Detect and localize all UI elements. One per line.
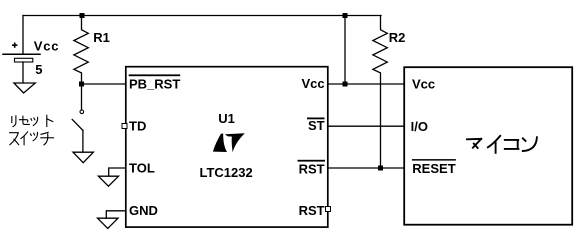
svg-text:ST: ST <box>308 118 325 133</box>
svg-text:Vcc: Vcc <box>412 77 435 92</box>
svg-text:Vcc: Vcc <box>34 39 60 54</box>
svg-text:R2: R2 <box>389 30 406 45</box>
svg-text:TOL: TOL <box>129 161 155 176</box>
svg-text:5: 5 <box>35 62 42 77</box>
svg-text:I/O: I/O <box>411 119 428 134</box>
svg-text:PB_RST: PB_RST <box>129 77 180 92</box>
svg-text:RST: RST <box>299 203 325 218</box>
svg-text:TD: TD <box>129 119 146 134</box>
svg-text:RESET: RESET <box>412 161 455 176</box>
svg-text:RST: RST <box>299 161 325 176</box>
svg-text:LTC1232: LTC1232 <box>200 165 253 180</box>
svg-text:Vcc: Vcc <box>301 76 324 91</box>
svg-text:U1: U1 <box>218 111 235 126</box>
svg-text:GND: GND <box>129 203 158 218</box>
svg-text:R1: R1 <box>93 30 110 45</box>
